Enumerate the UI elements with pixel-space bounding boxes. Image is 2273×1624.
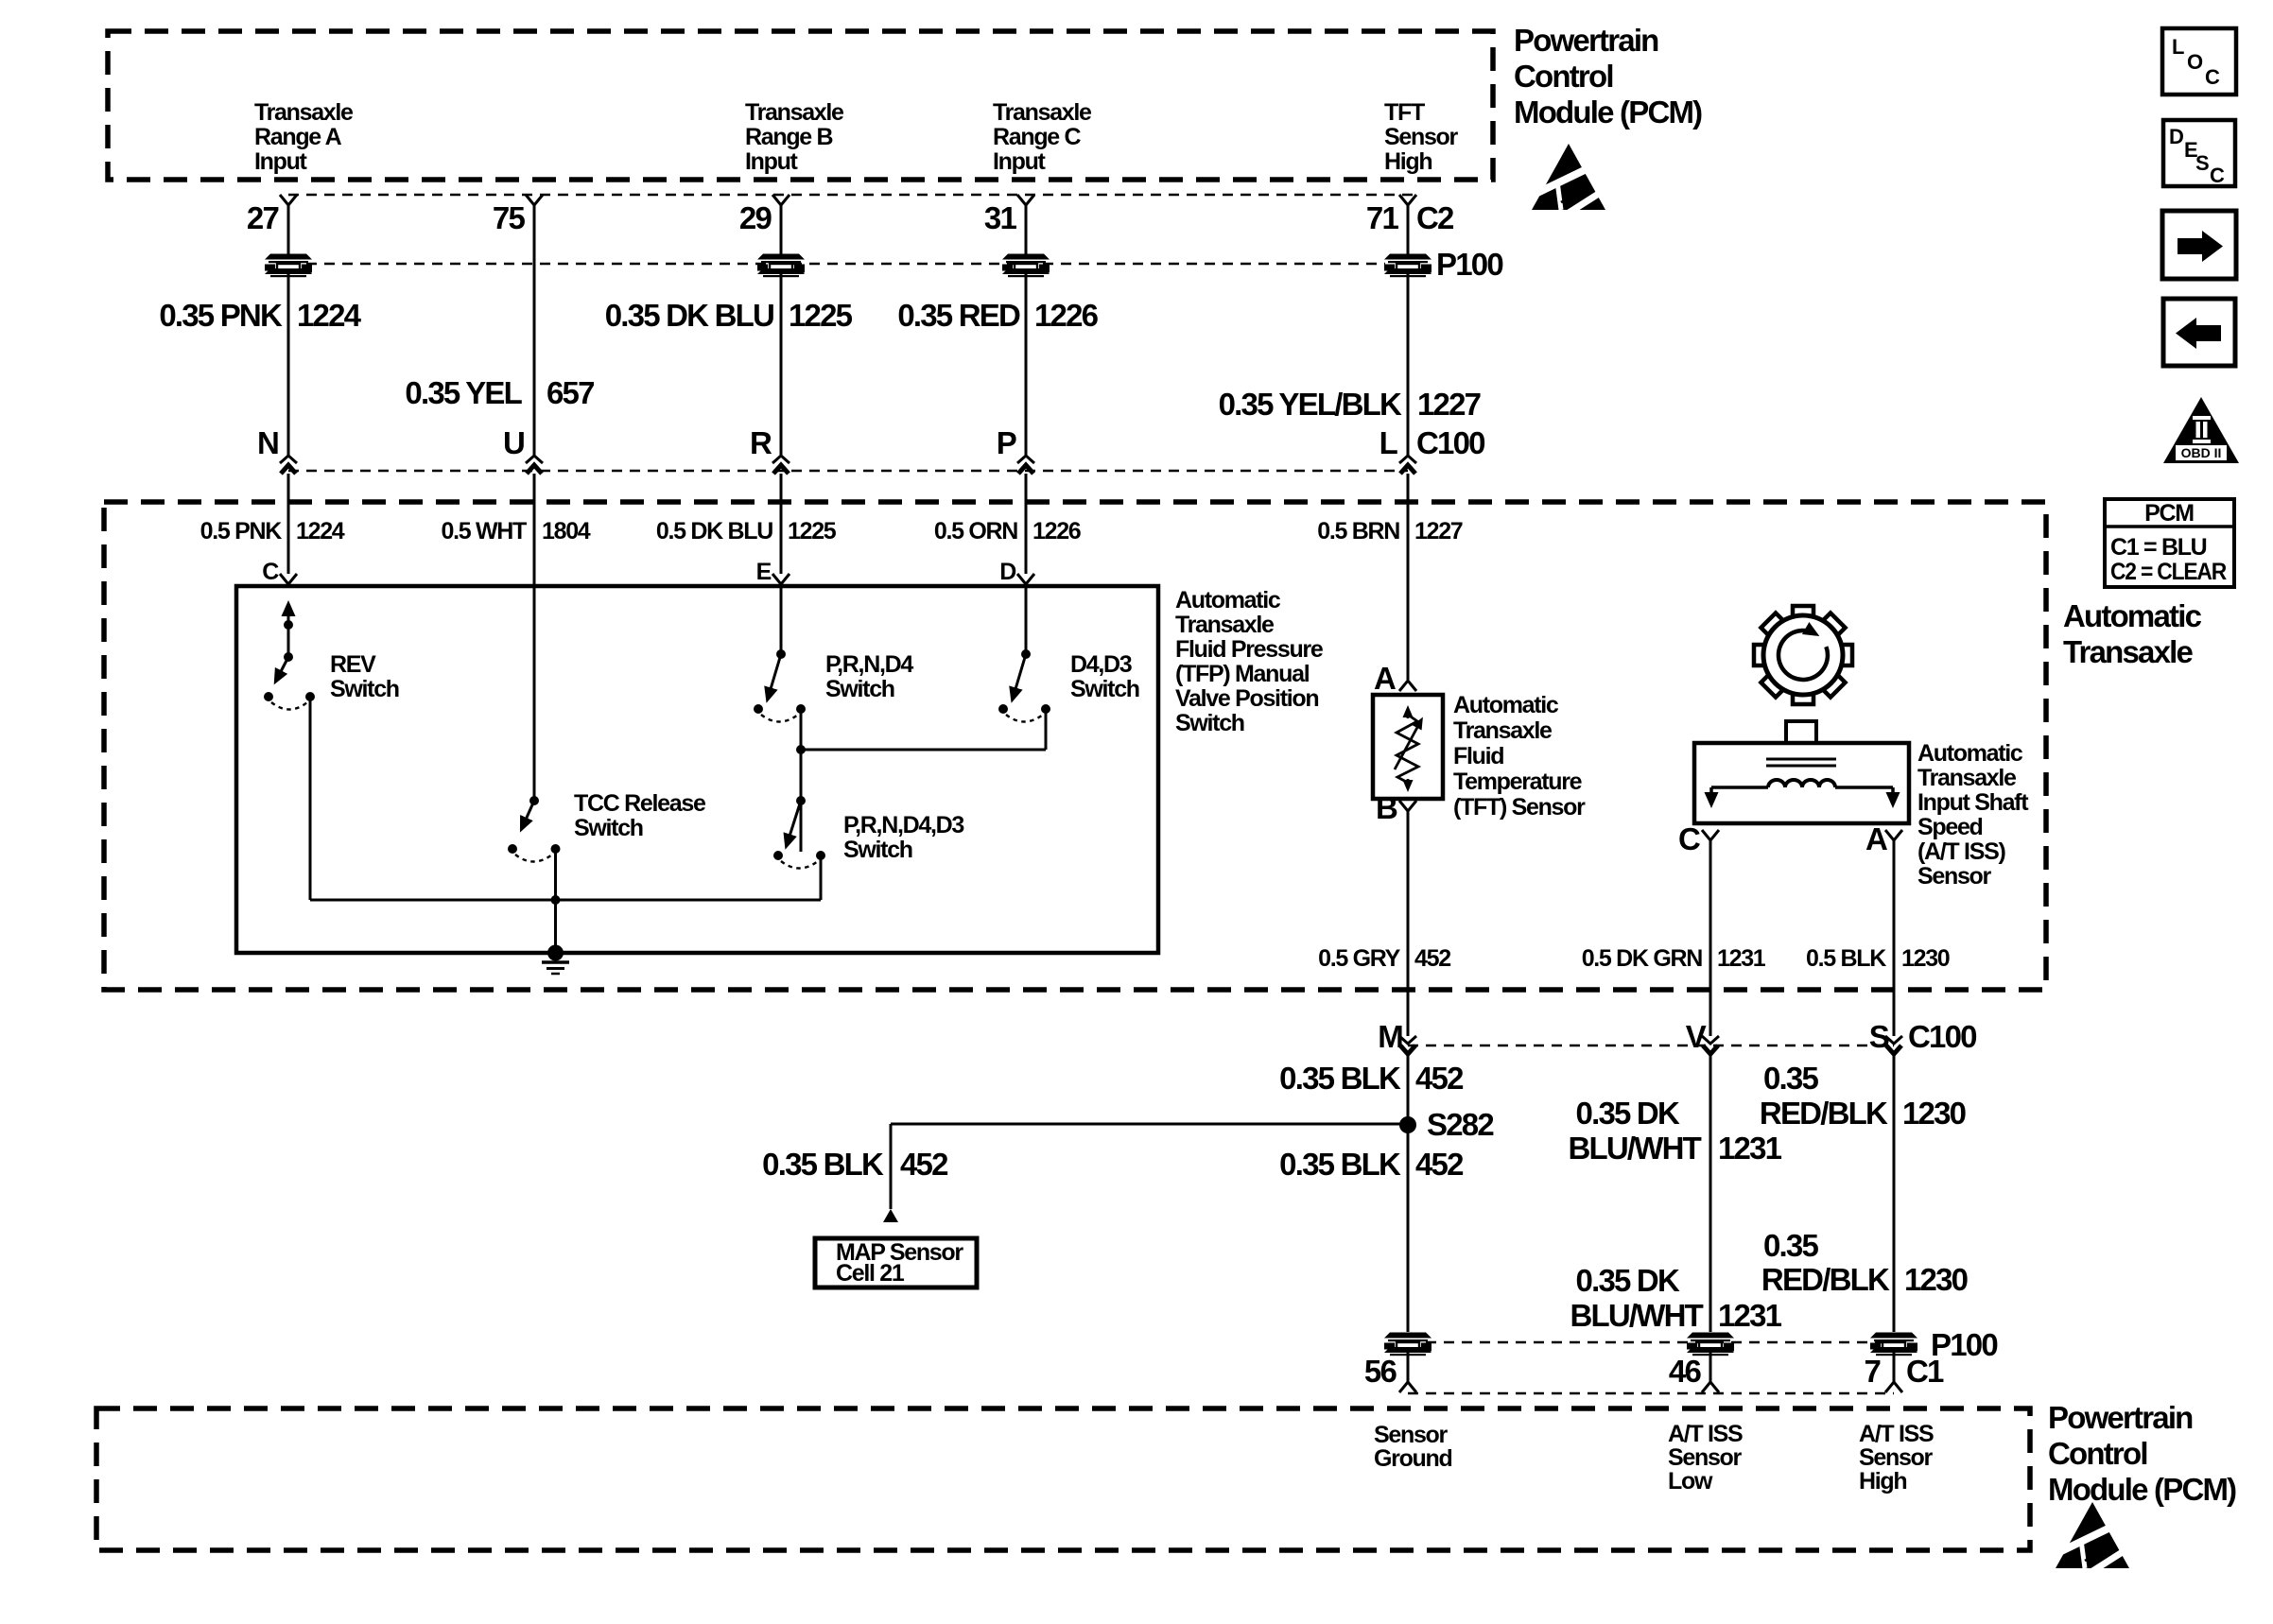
svg-text:Input: Input: [254, 148, 308, 175]
ISS sensor box: [1694, 743, 1909, 823]
REV switch: [264, 605, 315, 900]
label A/T ISS Sensor Low: [1668, 1421, 1743, 1494]
label 0.35 BLK 452 left: [762, 1147, 948, 1182]
svg-text:Transaxle: Transaxle: [254, 99, 354, 126]
label 0.35 RED/BLK 1230 lower: [1761, 1228, 1968, 1297]
label ISS sensor: [1917, 740, 2029, 890]
svg-text:0.35 BLK: 0.35 BLK: [1279, 1147, 1401, 1182]
label TFP switch: [1175, 587, 1324, 736]
net C2 connector face dashed line: [288, 194, 1418, 197]
svg-text:P,R,N,D4: P,R,N,D4: [825, 651, 913, 678]
pin fork at x=305 C2 row: [280, 195, 297, 205]
svg-text:Range A: Range A: [254, 124, 342, 150]
svg-text:Transaxle: Transaxle: [2063, 634, 2194, 669]
svg-text:PCM: PCM: [2144, 500, 2194, 527]
label 0.35 DK BLU/WHT 1231 lower: [1570, 1263, 1781, 1333]
inline connector P100 row2 at x=1489: [1384, 1333, 1431, 1356]
label 0.5 GRY 452: [1318, 945, 1450, 972]
label P,R,N,D4,D3 Switch: [843, 812, 963, 863]
ESD sensitivity symbol top: [1532, 144, 1607, 216]
svg-text:P100: P100: [1436, 247, 1502, 282]
svg-text:D4,D3: D4,D3: [1070, 651, 1132, 678]
inline connector P100 at x=1489: [1384, 254, 1431, 278]
wire 1231 ISS C to C100: [1709, 840, 1712, 1036]
svg-text:C1 = BLU: C1 = BLU: [2110, 534, 2207, 561]
LOC reference box: [2162, 28, 2236, 95]
svg-text:46: 46: [1669, 1354, 1702, 1389]
inline connector P100 at x=1085: [1002, 254, 1050, 278]
label 0.35 PNK 1224: [159, 298, 361, 333]
svg-text:1226: 1226: [1034, 298, 1099, 333]
C100 pin arrows at x=1489: [1399, 456, 1416, 474]
svg-text:452: 452: [1415, 1147, 1464, 1182]
OBD II triangle: [2163, 397, 2239, 463]
svg-text:BLU/WHT: BLU/WHT: [1570, 1298, 1703, 1333]
svg-text:Cell 21: Cell 21: [836, 1260, 905, 1287]
svg-text:Transaxle: Transaxle: [1453, 717, 1553, 744]
svg-text:RED/BLK: RED/BLK: [1760, 1096, 1888, 1131]
pin fork at x=826 C2 row: [772, 195, 789, 205]
label 0.5 PNK 1224: [200, 518, 345, 544]
svg-text:O: O: [2187, 50, 2203, 74]
svg-text:0.5 BLK: 0.5 BLK: [1806, 945, 1886, 972]
wire 452 TFT B to C100: [1407, 811, 1410, 1036]
svg-text:0.35 YEL/BLK: 0.35 YEL/BLK: [1219, 387, 1402, 422]
svg-text:1231: 1231: [1717, 945, 1766, 972]
svg-text:E: E: [756, 559, 772, 585]
svg-text:Input: Input: [993, 148, 1047, 175]
svg-text:Sensor: Sensor: [1374, 1422, 1449, 1448]
label 0.35 RED/BLK 1230 upper: [1760, 1061, 1966, 1131]
C100 pin arrows at x=565: [526, 456, 543, 474]
svg-text:56: 56: [1364, 1354, 1397, 1389]
PCM bottom dashed box: [96, 1408, 2030, 1550]
svg-text:7: 7: [1864, 1354, 1880, 1389]
svg-text:Switch: Switch: [330, 676, 399, 702]
label 0.5 BRN 1227: [1317, 518, 1463, 544]
svg-text:0.35 DK BLU: 0.35 DK BLU: [605, 298, 773, 333]
svg-text:Automatic: Automatic: [2063, 598, 2202, 633]
svg-text:0.5 BRN: 0.5 BRN: [1317, 518, 1399, 544]
svg-text:OBD II: OBD II: [2181, 445, 2222, 460]
svg-text:Powertrain: Powertrain: [1514, 23, 1658, 58]
TFT sensor box: [1373, 695, 1443, 799]
svg-text:S: S: [2195, 151, 2209, 175]
TCC Release switch: [508, 796, 561, 953]
svg-text:C100: C100: [1416, 425, 1484, 460]
label 0.5 WHT 1804: [441, 518, 590, 544]
Automatic Transaxle dashed box: [104, 502, 2046, 990]
svg-text:Switch: Switch: [1070, 676, 1139, 702]
label REV Switch: [330, 651, 399, 702]
svg-text:0.35 BLK: 0.35 BLK: [762, 1147, 884, 1182]
svg-text:452: 452: [1415, 1061, 1464, 1096]
svg-text:RED/BLK: RED/BLK: [1761, 1262, 1890, 1297]
wire 1224 PCM pin27 to P100: [287, 205, 290, 254]
svg-text:Input Shaft: Input Shaft: [1917, 789, 2029, 816]
ESD sensitivity symbol bottom: [2056, 1502, 2131, 1575]
svg-text:A/T ISS: A/T ISS: [1668, 1421, 1743, 1447]
ISS coil core lines: [1766, 758, 1836, 761]
wire 1227 C100 to TFT pin A: [1407, 474, 1410, 680]
C100 pin arrows at x=305: [280, 456, 297, 474]
wire 1224 C100 to TFP pin C: [287, 474, 290, 574]
svg-text:452: 452: [1414, 945, 1450, 972]
label 0.35 BLK 452 center: [1279, 1147, 1464, 1182]
svg-text:Powertrain: Powertrain: [2048, 1400, 2193, 1435]
label TFT Sensor High: [1384, 99, 1459, 175]
PCM connector legend table: [2105, 499, 2234, 587]
label P,R,N,D4 Switch: [825, 651, 913, 702]
label Powertrain Control Module (PCM) top: [1514, 23, 1702, 130]
svg-text:TFT: TFT: [1384, 99, 1425, 126]
wire 1225 pin29 to P100: [780, 205, 783, 254]
wire 1224 P100 to C100: [287, 273, 290, 456]
TFT thermistor symbol: [1395, 709, 1421, 788]
svg-text:Transaxle: Transaxle: [1175, 612, 1275, 638]
svg-text:C: C: [1678, 821, 1700, 856]
ground junction dot: [547, 945, 564, 961]
svg-text:Control: Control: [2048, 1436, 2147, 1471]
svg-text:Module (PCM): Module (PCM): [2048, 1472, 2236, 1507]
svg-text:657: 657: [547, 375, 594, 410]
svg-text:71: 71: [1366, 200, 1399, 235]
svg-text:Fluid Pressure: Fluid Pressure: [1175, 636, 1324, 663]
svg-text:Speed: Speed: [1917, 814, 1983, 840]
wire 452 MAP branch vertical: [890, 1124, 893, 1209]
svg-text:(TFT) Sensor: (TFT) Sensor: [1453, 794, 1586, 821]
svg-text:0.5 DK GRN: 0.5 DK GRN: [1582, 945, 1703, 972]
ISS internal wires: [1711, 787, 1893, 803]
svg-text:0.35 DK: 0.35 DK: [1576, 1263, 1680, 1298]
svg-text:C: C: [2210, 164, 2225, 187]
svg-text:Sensor: Sensor: [1917, 863, 1992, 890]
svg-text:0.5 GRY: 0.5 GRY: [1318, 945, 1400, 972]
right arrow box: [2162, 211, 2236, 279]
label Automatic Transaxle: [2063, 598, 2202, 669]
svg-text:A: A: [1865, 821, 1887, 856]
wire 1226 P100 to C100: [1025, 273, 1028, 456]
svg-text:1804: 1804: [542, 518, 591, 544]
svg-text:0.35 YEL: 0.35 YEL: [405, 375, 522, 410]
svg-text:High: High: [1859, 1468, 1906, 1494]
ISS sensor mounting tab: [1786, 721, 1816, 743]
pin fork at x=1489 C2 row: [1399, 195, 1416, 205]
label 0.5 DK GRN 1231: [1582, 945, 1766, 972]
svg-text:(A/T ISS): (A/T ISS): [1917, 838, 2005, 865]
net C1 dashed line: [1408, 1392, 1894, 1395]
pin fork bottom at x=1809: [1702, 1382, 1719, 1392]
svg-text:C1: C1: [1906, 1354, 1944, 1389]
wire 452 splice to MAP branch: [891, 1123, 1408, 1126]
svg-text:L: L: [2172, 35, 2184, 59]
svg-text:High: High: [1384, 148, 1431, 175]
svg-text:0.35 BLK: 0.35 BLK: [1279, 1061, 1401, 1096]
svg-text:Sensor: Sensor: [1668, 1444, 1743, 1471]
svg-text:Module (PCM): Module (PCM): [1514, 95, 1702, 130]
svg-text:Input: Input: [745, 148, 799, 175]
C100 row2 arrows at x=1809: [1702, 1036, 1719, 1054]
label Powertrain Control Module (PCM) bottom: [2048, 1400, 2236, 1507]
label 0.35 YEL 657: [405, 375, 594, 410]
label 0.35 YEL/BLK 1227: [1219, 387, 1481, 422]
svg-text:Temperature: Temperature: [1453, 769, 1583, 795]
svg-text:0.35 RED: 0.35 RED: [897, 298, 1020, 333]
svg-text:0.5 PNK: 0.5 PNK: [200, 518, 283, 544]
svg-text:Switch: Switch: [1175, 710, 1244, 736]
net C100 dashed line row1: [288, 470, 1408, 473]
svg-text:L: L: [1379, 425, 1398, 460]
svg-text:0.5 ORN: 0.5 ORN: [934, 518, 1017, 544]
ISS coil: [1768, 780, 1835, 787]
inline connector P100 at x=826: [757, 254, 805, 278]
C100 row2 arrows at x=2003: [1885, 1036, 1902, 1054]
svg-text:N: N: [257, 425, 278, 460]
svg-text:1224: 1224: [297, 298, 362, 333]
svg-text:P: P: [997, 425, 1016, 460]
svg-text:1231: 1231: [1718, 1131, 1782, 1166]
svg-text:Range B: Range B: [745, 124, 833, 150]
svg-text:1230: 1230: [1901, 945, 1950, 972]
svg-text:U: U: [503, 425, 524, 460]
ground symbol: [542, 962, 569, 974]
left arrow box: [2163, 299, 2235, 366]
svg-text:C100: C100: [1908, 1019, 1976, 1054]
label Transaxle Range A Input: [254, 99, 354, 175]
svg-text:A: A: [1374, 661, 1396, 696]
label 0.35 DK BLU/WHT 1231 upper: [1568, 1096, 1781, 1166]
pin fork bottom at x=2003: [1885, 1382, 1902, 1392]
svg-text:Sensor: Sensor: [1384, 124, 1459, 150]
svg-text:Fluid: Fluid: [1453, 743, 1503, 769]
svg-text:31: 31: [984, 200, 1017, 235]
label TFT sensor: [1453, 692, 1586, 821]
svg-text:27: 27: [247, 200, 279, 235]
D4,D3 switch: [801, 586, 1050, 750]
label Transaxle Range C Input: [993, 99, 1092, 175]
svg-text:0.35 DK: 0.35 DK: [1576, 1096, 1680, 1131]
svg-text:0.35: 0.35: [1763, 1061, 1818, 1096]
wire 1225 C100 to TFP pin E: [780, 474, 783, 574]
label 0.35 RED 1226: [897, 298, 1098, 333]
C100 row2 arrows at x=1489: [1399, 1036, 1416, 1054]
label 0.5 ORN 1226: [934, 518, 1081, 544]
label 0.5 DK BLU 1225: [656, 518, 837, 544]
wire 1227 P100 to C100: [1407, 273, 1410, 456]
svg-text:P,R,N,D4,D3: P,R,N,D4,D3: [843, 812, 963, 838]
svg-text:Switch: Switch: [574, 815, 643, 841]
svg-text:1225: 1225: [789, 298, 853, 333]
svg-text:Range C: Range C: [993, 124, 1082, 150]
svg-text:R: R: [750, 425, 772, 460]
svg-text:C2 = CLEAR: C2 = CLEAR: [2110, 559, 2227, 585]
label Transaxle Range B Input: [745, 99, 844, 175]
svg-text:Control: Control: [1514, 59, 1613, 94]
svg-text:Transaxle: Transaxle: [993, 99, 1092, 126]
svg-text:Sensor: Sensor: [1859, 1444, 1934, 1471]
svg-text:TCC Release: TCC Release: [574, 790, 706, 817]
wire stubs to PCM pins: [1407, 1353, 1410, 1382]
label 0.35 BLK 452 upper: [1279, 1061, 1464, 1096]
pin fork at x=1085 C2 row: [1017, 195, 1034, 205]
svg-text:BLU/WHT: BLU/WHT: [1568, 1131, 1701, 1166]
svg-text:C: C: [262, 559, 279, 585]
wire 452 C100 to P100: [1407, 1054, 1410, 1332]
svg-text:1224: 1224: [296, 518, 345, 544]
svg-text:Automatic: Automatic: [1917, 740, 2023, 767]
svg-text:Automatic: Automatic: [1175, 587, 1281, 613]
svg-text:1230: 1230: [1904, 1262, 1968, 1297]
svg-text:0.5 WHT: 0.5 WHT: [441, 518, 527, 544]
off-page arrow to MAP sensor: [883, 1209, 898, 1222]
svg-text:1231: 1231: [1718, 1298, 1782, 1333]
P,R,N,D4,D3 switch: [773, 750, 825, 900]
wire 1804 C100 to TCC switch: [533, 474, 536, 801]
gear icon: [1754, 606, 1852, 704]
splice S282: [1399, 1116, 1416, 1133]
PCM top dashed box: [108, 31, 1493, 180]
TFP manual valve position switch box: [236, 586, 1158, 953]
wire D4D3 to PRND4 junction: [801, 749, 1046, 752]
svg-text:0.5 DK BLU: 0.5 DK BLU: [656, 518, 772, 544]
C100 pin arrows at x=1085: [1017, 456, 1034, 474]
svg-text:REV: REV: [330, 651, 376, 678]
svg-text:Ground: Ground: [1374, 1445, 1451, 1472]
svg-text:1225: 1225: [788, 518, 837, 544]
svg-text:A/T ISS: A/T ISS: [1859, 1421, 1934, 1447]
wire 1226 C100 to TFP pin D: [1025, 474, 1028, 574]
svg-text:Switch: Switch: [843, 837, 912, 863]
svg-text:C2: C2: [1416, 200, 1454, 235]
connector P100 dashed line row1: [288, 263, 1385, 266]
svg-text:D: D: [2169, 125, 2183, 148]
wire 1227 pin71 to P100: [1407, 205, 1410, 254]
label Sensor Ground: [1374, 1422, 1451, 1472]
net C100 dashed line row2: [1408, 1045, 1894, 1047]
wire 657 pin75 to C100: [533, 205, 536, 456]
inline connector P100 row2 at x=2003: [1870, 1333, 1917, 1356]
wire 1226 pin31 to P100: [1025, 205, 1028, 254]
svg-text:1227: 1227: [1414, 518, 1463, 544]
svg-text:C: C: [2205, 65, 2220, 89]
svg-text:1226: 1226: [1032, 518, 1081, 544]
svg-text:1230: 1230: [1902, 1096, 1966, 1131]
svg-text:D: D: [999, 559, 1015, 585]
svg-text:S282: S282: [1427, 1107, 1494, 1142]
svg-text:Switch: Switch: [825, 676, 894, 702]
label A/T ISS Sensor High: [1859, 1421, 1934, 1494]
svg-text:Low: Low: [1668, 1468, 1713, 1494]
wire 1225 P100 to C100: [780, 273, 783, 456]
svg-text:Transaxle: Transaxle: [745, 99, 844, 126]
svg-text:1227: 1227: [1417, 387, 1481, 422]
label D4,D3 Switch: [1070, 651, 1139, 702]
MAP Sensor Cell 21 reference box: [815, 1238, 977, 1287]
svg-text:Automatic: Automatic: [1453, 692, 1559, 718]
C100 pin arrows at x=826: [772, 456, 789, 474]
svg-text:0.35 PNK: 0.35 PNK: [159, 298, 283, 333]
wire 1231 C100 to P100: [1709, 1054, 1712, 1332]
inline connector P100 at x=305: [265, 254, 312, 278]
switch common bus wire: [310, 899, 821, 902]
svg-text:29: 29: [739, 200, 772, 235]
wire 1230 C100 to P100: [1893, 1054, 1896, 1332]
svg-text:(TFP) Manual: (TFP) Manual: [1175, 661, 1310, 687]
label TCC Release Switch: [574, 790, 706, 841]
pin fork at x=565 C2 row: [526, 195, 543, 205]
svg-text:452: 452: [900, 1147, 948, 1182]
svg-text:B: B: [1376, 790, 1397, 825]
inline connector P100 row2 at x=1809: [1687, 1333, 1734, 1356]
svg-text:Valve Position: Valve Position: [1175, 685, 1318, 712]
svg-text:M: M: [1378, 1019, 1402, 1054]
connector P100 dashed line row2: [1408, 1341, 1894, 1344]
label 0.35 DK BLU 1225: [605, 298, 853, 333]
pin fork bottom at x=1489: [1399, 1382, 1416, 1392]
svg-text:75: 75: [493, 200, 526, 235]
svg-text:Transaxle: Transaxle: [1917, 765, 2017, 791]
wire 1230 ISS A to C100: [1893, 840, 1896, 1036]
label 0.5 BLK 1230: [1806, 945, 1950, 972]
svg-text:0.35: 0.35: [1763, 1228, 1818, 1263]
DESC reference box: [2163, 120, 2235, 187]
P,R,N,D4 switch: [754, 586, 806, 754]
